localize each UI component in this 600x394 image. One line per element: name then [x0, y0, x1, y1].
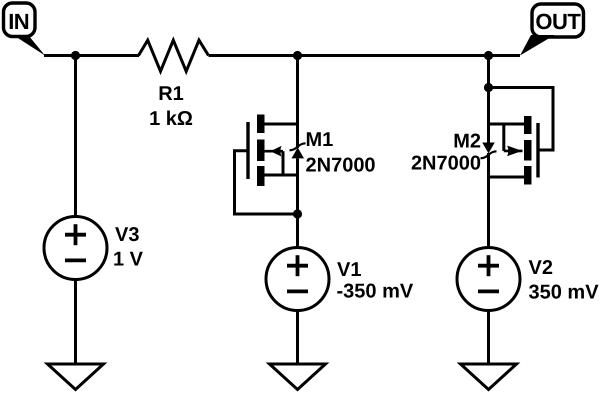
- wire V1 to ground: [296, 311, 299, 365]
- M2 channel bar middle: [524, 140, 532, 161]
- node junction R1/OUT: [484, 51, 493, 60]
- M1 body-source tie: [282, 151, 285, 175]
- wire M2 branch upper: [487, 56, 490, 144]
- voltage source V3 circle: [44, 217, 107, 280]
- wire V2 to ground: [487, 311, 490, 365]
- svg-text:1 V: 1 V: [113, 249, 144, 271]
- V3 minus sign: [65, 258, 86, 262]
- svg-text:-350 mV: -350 mV: [337, 281, 414, 303]
- M2 body arrow: [507, 146, 522, 157]
- wire top horizontal IN to resistor: [44, 54, 139, 57]
- svg-text:2N7000: 2N7000: [411, 153, 481, 175]
- M2 body diode triangle: [482, 143, 495, 154]
- M2 channel bar top: [524, 116, 532, 134]
- node junction R1/M1: [293, 51, 302, 60]
- ground V1: [270, 364, 326, 390]
- svg-text:1 kΩ: 1 kΩ: [149, 108, 193, 130]
- M1 body diode tilde: [290, 143, 306, 150]
- terminal IN tail: [14, 36, 45, 56]
- node junction IN/V3: [71, 51, 80, 60]
- M2 channel bar bottom: [524, 166, 532, 185]
- M2 body-source tie: [502, 124, 505, 151]
- svg-text:V1: V1: [337, 259, 361, 281]
- node junction M1 gate/V1: [293, 209, 302, 218]
- M1 drain lead: [259, 123, 298, 126]
- M2 body diode tilde: [481, 151, 497, 158]
- M1 gate plate: [246, 122, 249, 179]
- wire V3 branch vertical: [74, 56, 77, 217]
- V1 minus sign: [287, 289, 308, 293]
- M1 channel bar middle: [257, 140, 265, 162]
- voltage source V2 circle: [457, 248, 520, 311]
- svg-text:R1: R1: [158, 83, 184, 105]
- V2 minus sign: [478, 289, 499, 293]
- svg-text:V3: V3: [115, 224, 139, 246]
- svg-text:OUT: OUT: [535, 9, 581, 34]
- node junction M2 gate: [484, 83, 493, 92]
- ground V3: [48, 364, 104, 390]
- svg-text:IN: IN: [8, 9, 29, 34]
- ground V2: [461, 364, 517, 390]
- M2 gate wire: [489, 88, 554, 151]
- M2 body line: [504, 150, 523, 153]
- wire M1 branch upper: [296, 56, 299, 149]
- terminal OUT tail: [520, 35, 555, 56]
- svg-text:M1: M1: [306, 129, 334, 151]
- M1 body arrow: [270, 146, 281, 157]
- M1 gate wire: [235, 151, 298, 214]
- M2 gate plate: [536, 123, 539, 178]
- svg-text:V2: V2: [529, 257, 553, 279]
- M2 drain lead: [489, 176, 528, 179]
- M1 source lead: [259, 174, 298, 177]
- V2 plus sign: [478, 264, 499, 268]
- terminal OUT box: [532, 4, 584, 37]
- M2 source lead: [489, 123, 528, 126]
- M1 body line: [264, 150, 284, 153]
- wire V3 to ground: [74, 280, 77, 365]
- M1 channel bar top: [257, 115, 265, 134]
- svg-text:350 mV: 350 mV: [529, 282, 600, 304]
- terminal IN box: [4, 3, 36, 37]
- voltage source V1 circle: [266, 248, 329, 311]
- V1 plus sign: [287, 264, 308, 268]
- wire M1 branch lower: [296, 158, 299, 247]
- wire M2 branch lower: [487, 153, 490, 248]
- svg-text:M2: M2: [453, 131, 481, 153]
- resistor R1: [139, 40, 209, 71]
- svg-text:2N7000: 2N7000: [306, 155, 376, 177]
- wire top horizontal resistor to OUT: [209, 54, 521, 57]
- V3 plus sign: [65, 233, 86, 237]
- M1 body diode triangle: [292, 148, 305, 159]
- M1 channel bar bottom: [257, 166, 265, 186]
